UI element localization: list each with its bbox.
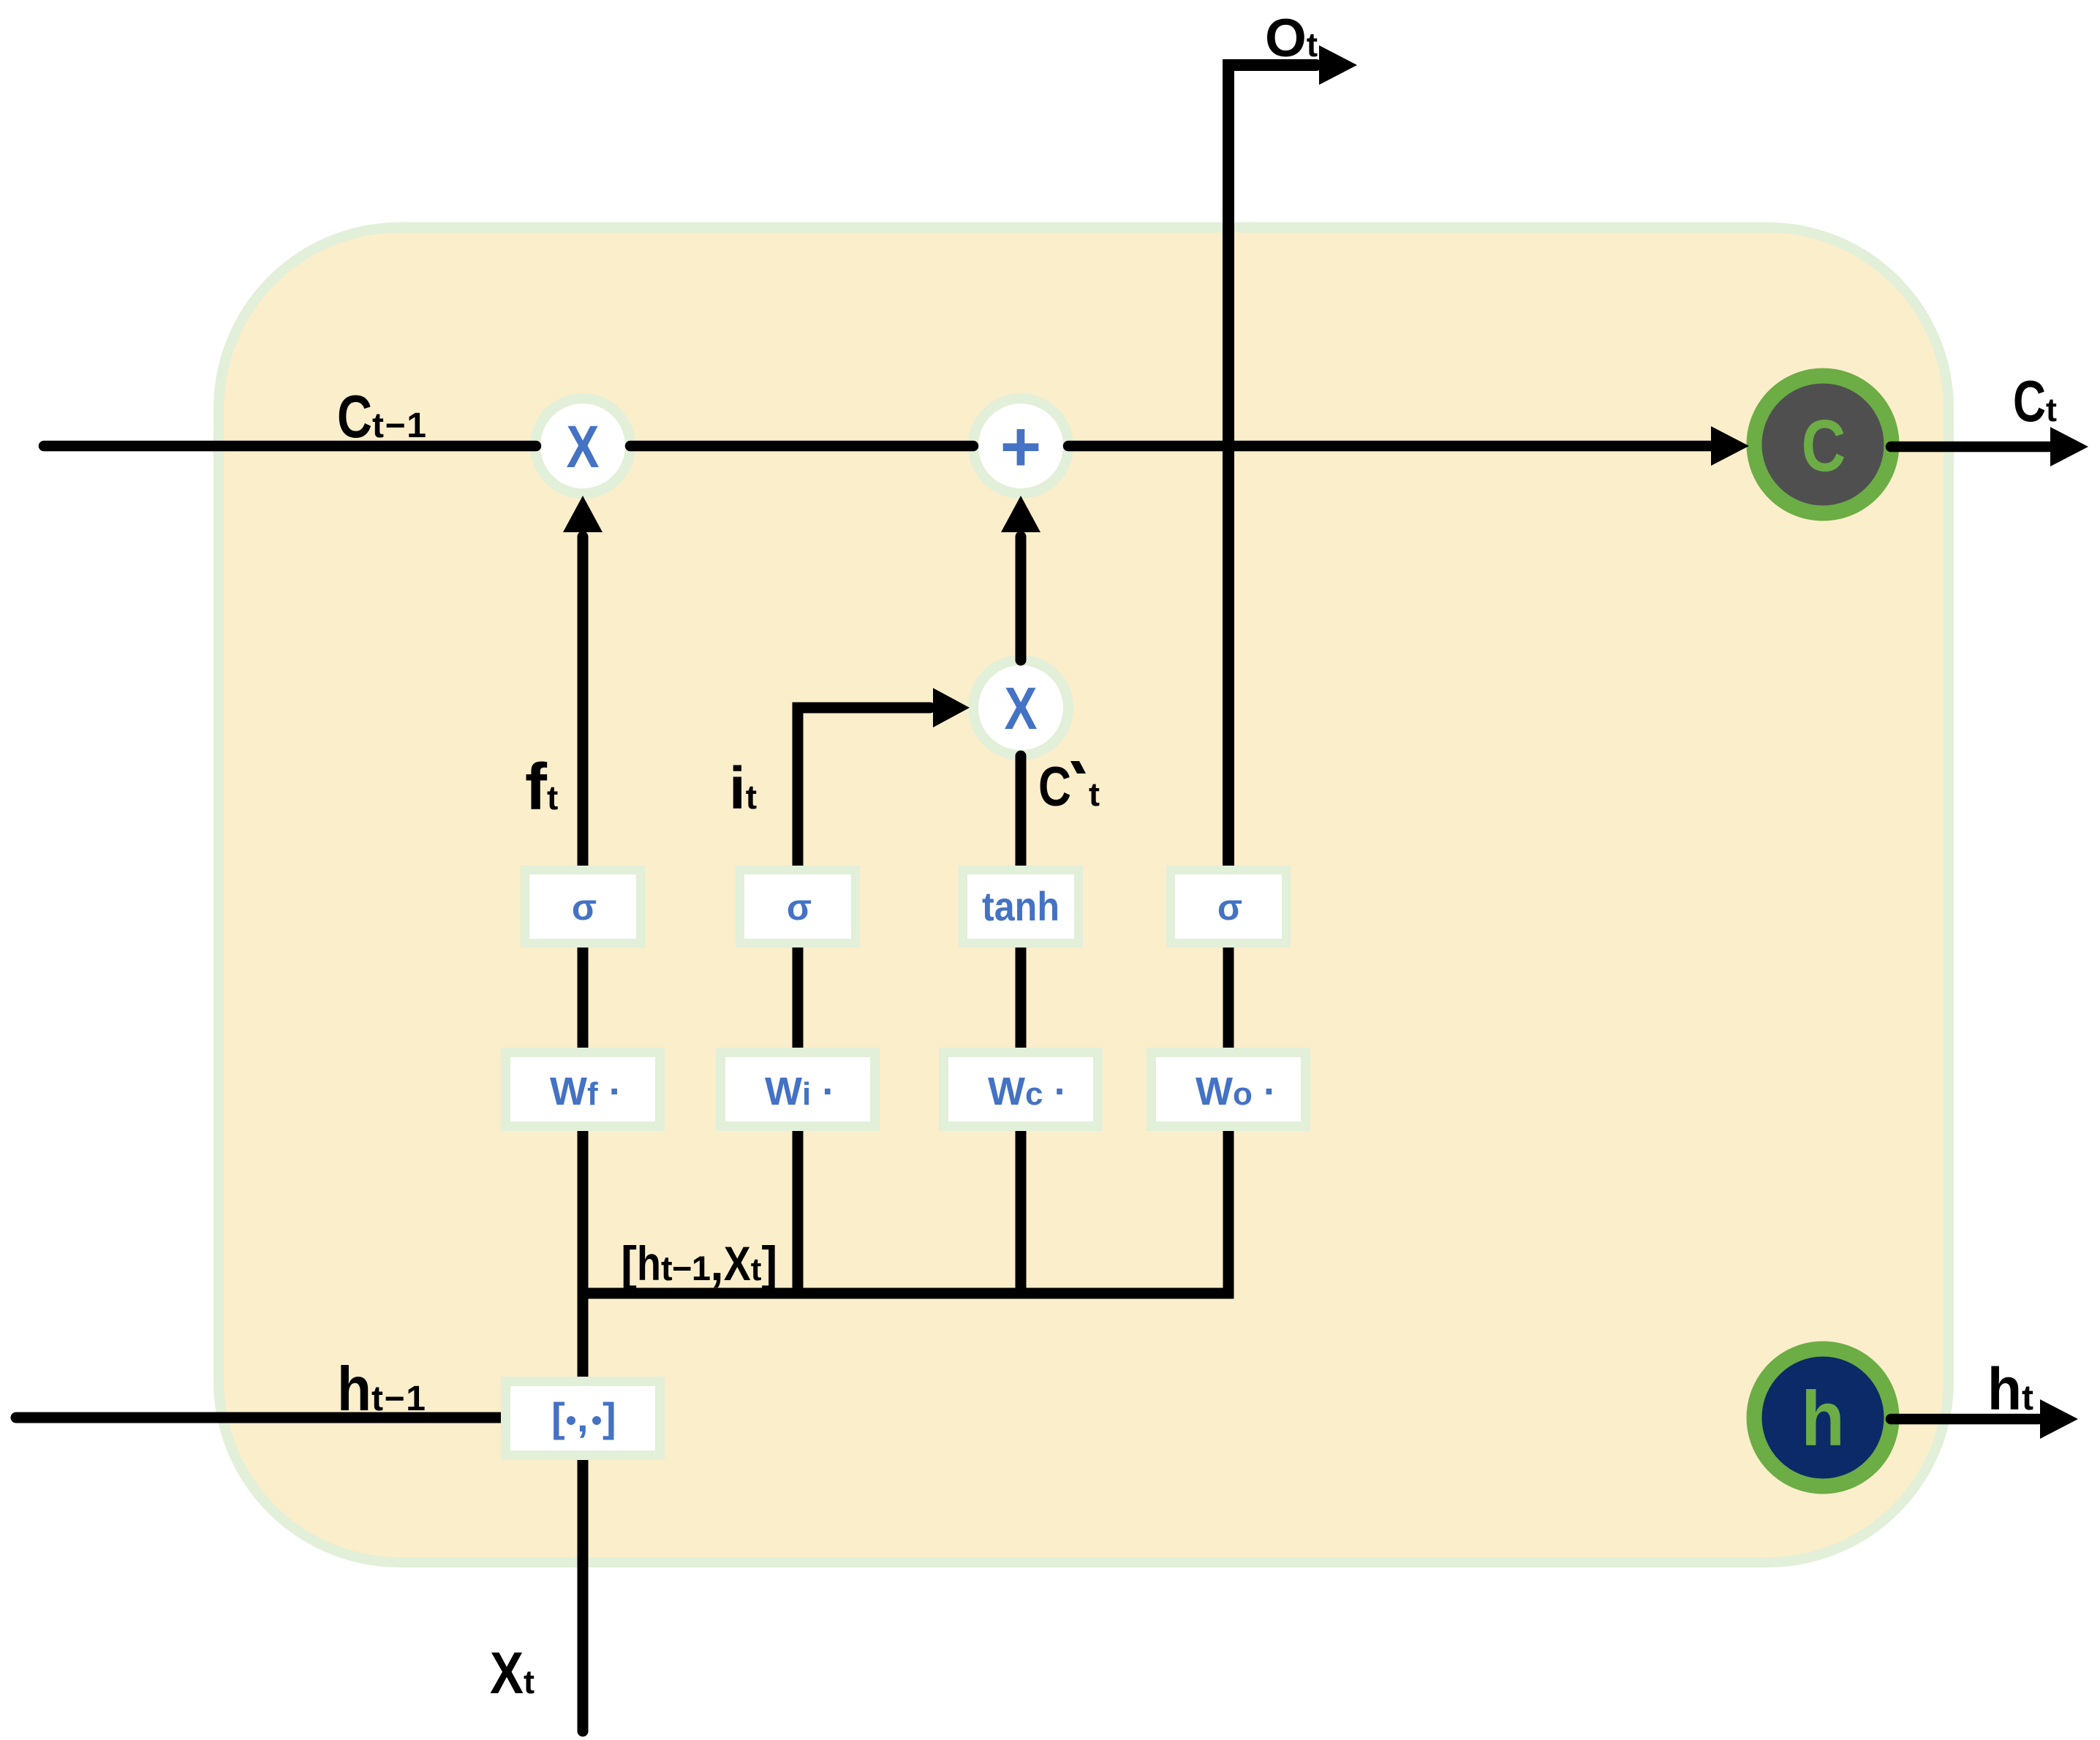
wire: plus to C node with arrowhead [1068,441,1712,452]
multiply node X1 circle [535,398,630,493]
wire: h node to ht output arrow [1891,1414,2039,1425]
wire: c column W to tanh [1016,939,1027,1057]
svg-text:t: t [1089,776,1100,813]
wire: i column sigma up and right to X2 arrow [798,708,930,874]
h state node circle [1754,1349,1892,1486]
wire: ht-1 input horizontal [16,1412,512,1423]
wire: i column W to sigma [793,939,804,1057]
W box c [939,1048,1103,1131]
svg-text:Wi ·: Wi · [765,1070,835,1113]
svg-text:h: h [1801,1375,1845,1462]
svg-text:σ: σ [787,887,812,928]
wire: concat horizontal [ht-1,Xt] distribution line with corner up o column [583,1121,1228,1293]
svg-text:tanh: tanh [982,883,1060,929]
W box o [1147,1048,1310,1131]
wire: f column between W and sigma [578,939,589,1057]
wire: c column tanh to X2 [1016,756,1027,874]
W box f [501,1048,665,1131]
wire: f column sigma to X1 arrow [578,537,589,874]
svg-text:+: + [1000,406,1042,486]
svg-text:C: C [1802,404,1846,487]
svg-text:X: X [567,414,600,480]
concat box [.,.] [501,1377,665,1460]
svg-text:[: [ [551,1394,565,1440]
svg-text:Wc ·: Wc · [988,1070,1067,1113]
wire: f column below W to concat box [578,1121,589,1386]
svg-text:,: , [577,1394,589,1440]
wire: X1 to plus [630,441,973,452]
wire: c column bottom [1016,1121,1027,1293]
wire: Ct-1 input line [44,441,536,452]
cell body rounded rect [219,227,1949,1562]
svg-text:C: C [1038,756,1071,818]
wire: C node to Ct output arrow [1891,442,2049,453]
svg-text:Wo ·: Wo · [1196,1070,1277,1113]
C state node circle [1754,376,1892,513]
multiply node X2 circle [973,660,1068,755]
svg-text:Wf ·: Wf · [550,1070,622,1113]
sigma box f [521,866,645,947]
wire: X2 up to plus arrow [1016,537,1027,660]
add node plus circle [973,398,1068,493]
sigma box i [736,866,860,947]
svg-text:σ: σ [1217,887,1242,928]
svg-text:X: X [1005,676,1038,742]
wire: i column bottom [793,1121,804,1293]
tanh box [959,866,1083,947]
svg-text:σ: σ [572,887,597,928]
W box i [716,1048,880,1131]
wire: o column W to sigma [1223,939,1234,1057]
wire: Xt input vertical [578,1450,589,1731]
svg-text:]: ] [603,1394,616,1440]
wire: Ot vertical and top arrow [1228,65,1316,874]
sigma box o [1166,866,1291,947]
